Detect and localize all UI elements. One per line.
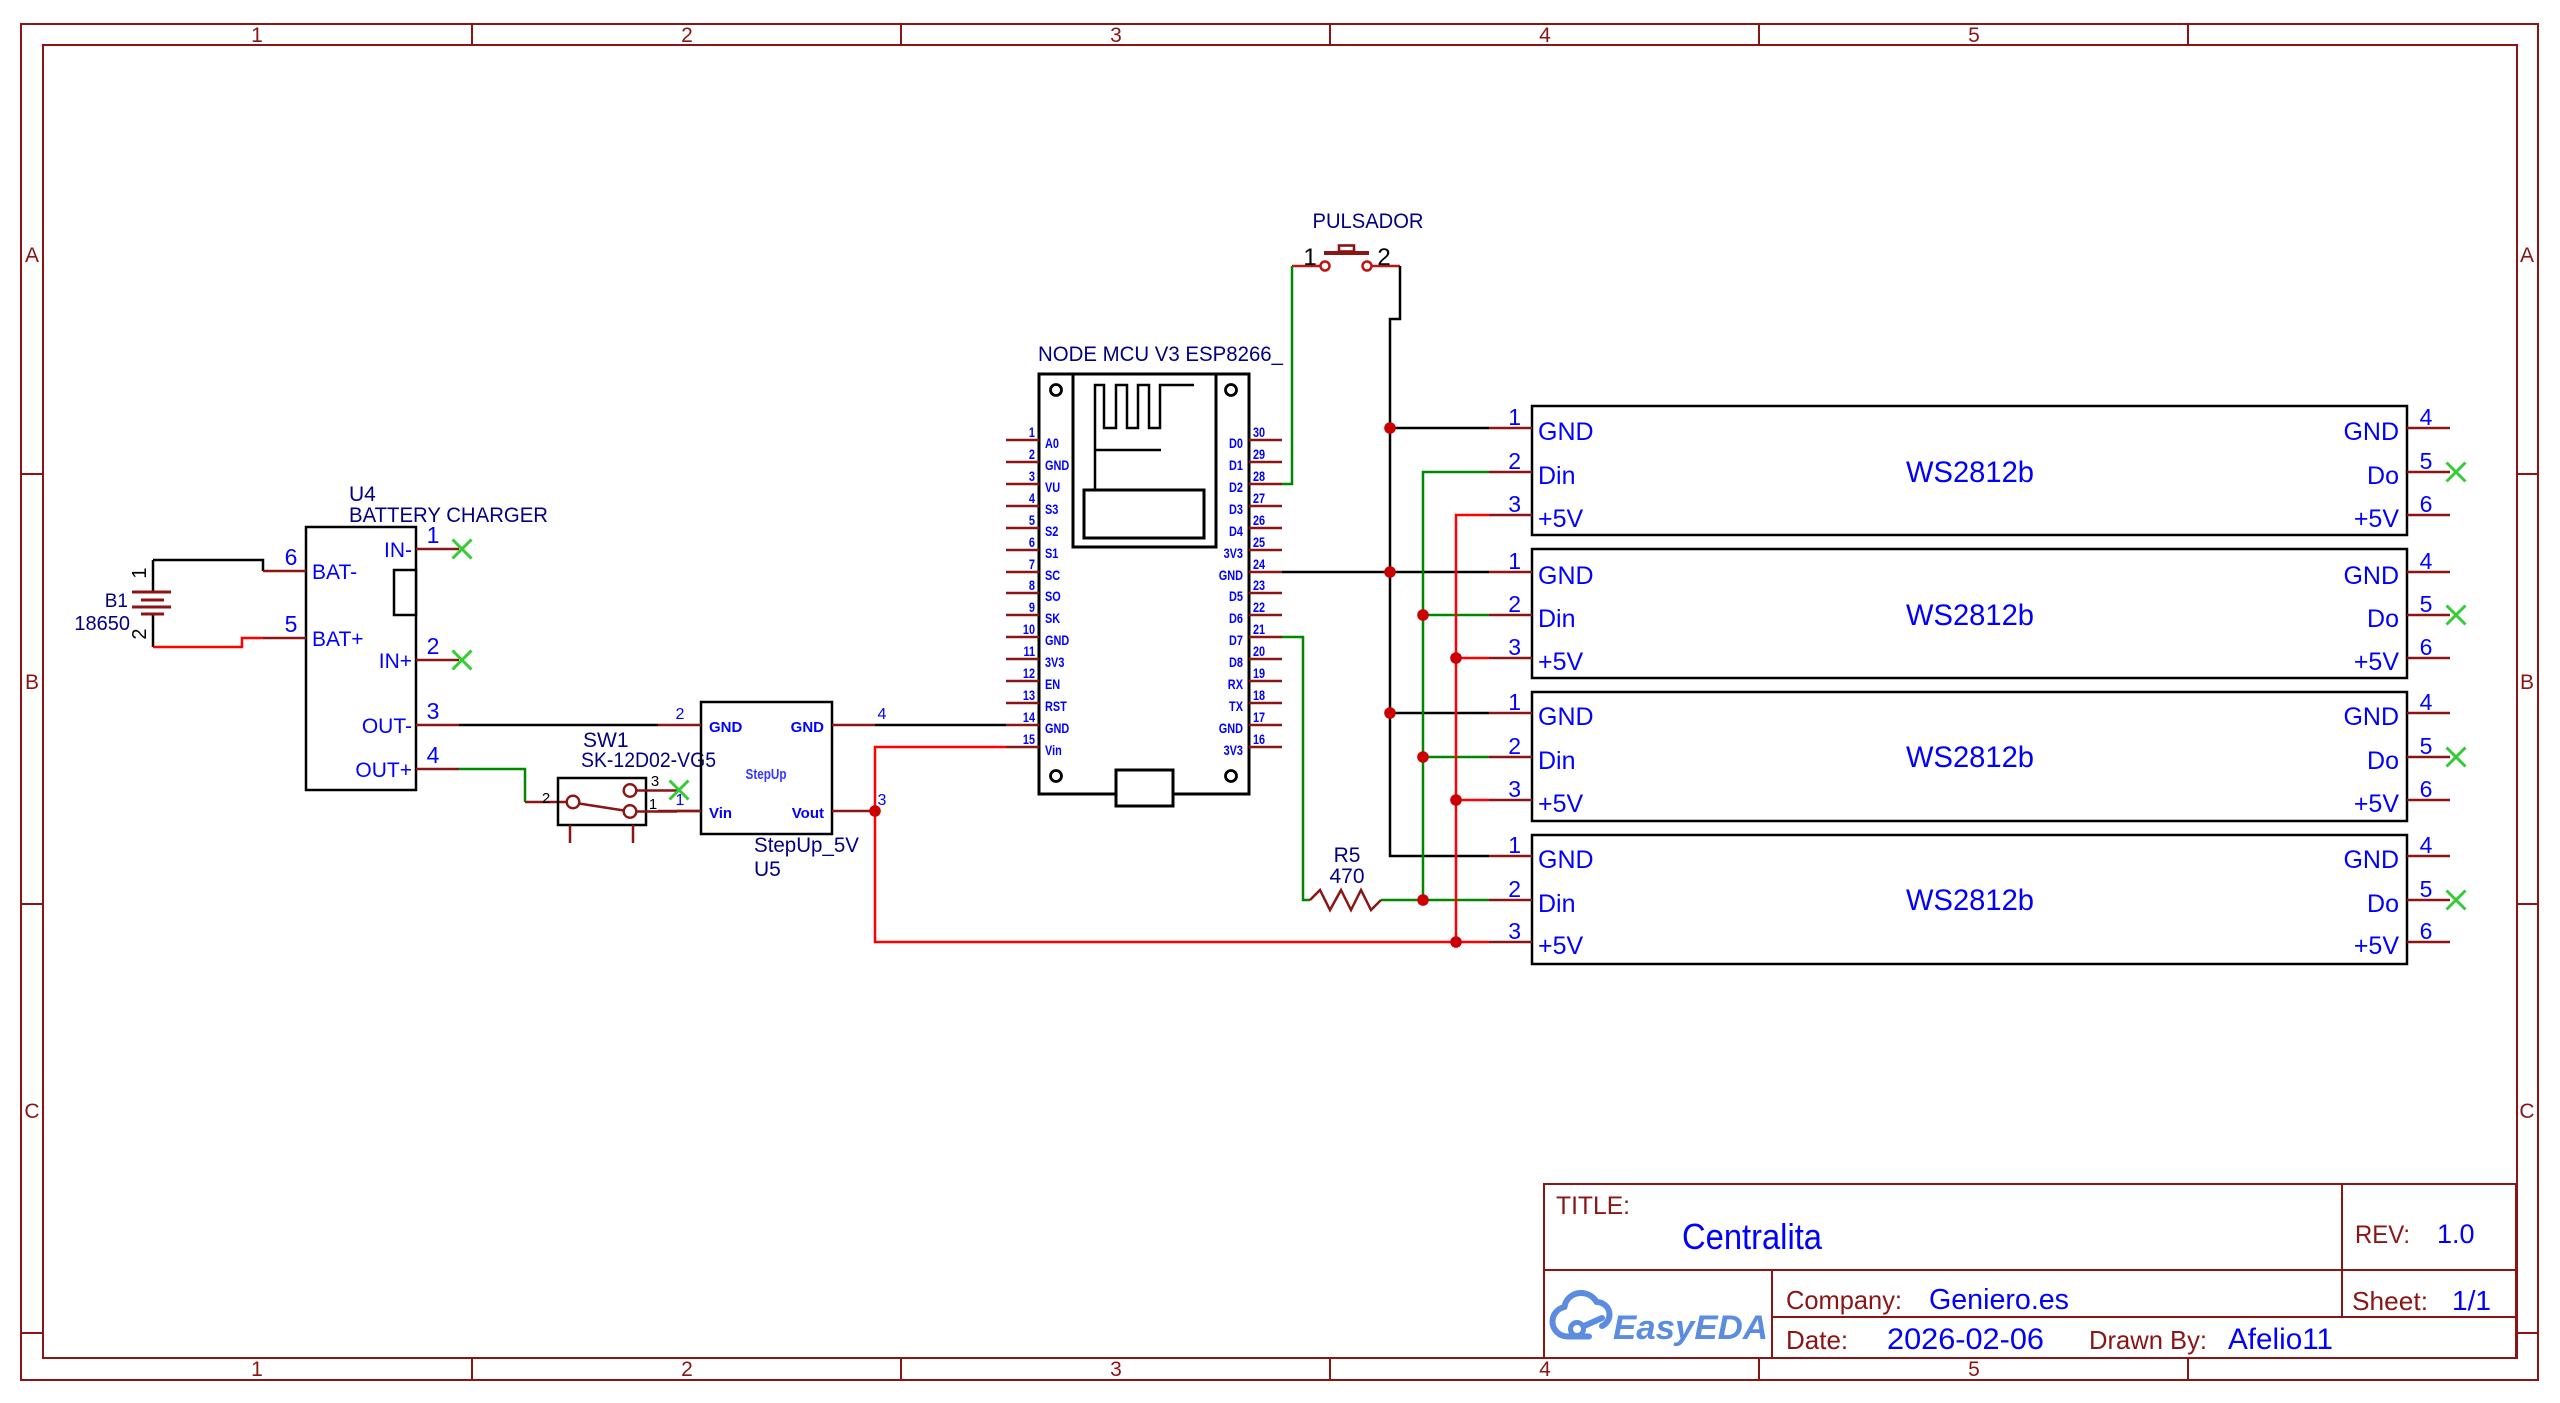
svg-text:GND: GND (1538, 418, 1594, 446)
svg-text:1/1: 1/1 (2452, 1285, 2491, 1316)
NodeMCU module inner box (1073, 374, 1216, 547)
svg-text:20: 20 (1253, 643, 1265, 659)
svg-text:3V3: 3V3 (1224, 545, 1244, 561)
svg-text:24: 24 (1253, 556, 1265, 572)
U4 pin 4 OUT+ (355, 742, 459, 782)
svg-text:3: 3 (651, 773, 659, 790)
svg-text:4: 4 (2420, 548, 2433, 574)
svg-text:GND: GND (1045, 632, 1069, 648)
svg-text:+5V: +5V (1538, 648, 1584, 676)
svg-text:U5: U5 (754, 858, 781, 881)
svg-text:11: 11 (1024, 643, 1036, 659)
no-connect flag X on strip 3 Do (2447, 748, 2466, 767)
SW1 lever (579, 804, 624, 811)
frame row labels right (2519, 244, 2534, 1123)
U5 pin 2 GND (left) (658, 706, 743, 736)
svg-text:2: 2 (676, 706, 685, 723)
svg-text:IN+: IN+ (379, 650, 412, 673)
svg-text:2: 2 (129, 628, 151, 639)
svg-text:U4: U4 (349, 483, 376, 506)
svg-text:PULSADOR: PULSADOR (1313, 210, 1424, 233)
svg-text:D3: D3 (1229, 501, 1243, 517)
title block outline (1544, 1184, 2516, 1358)
wire U4 OUT+ to SW1 pin2 (green) (459, 769, 525, 802)
svg-text:18: 18 (1253, 687, 1265, 703)
svg-text:2: 2 (1508, 733, 1521, 759)
WS2812b strip 1 pin 5 Do (2367, 448, 2450, 490)
svg-text:Din: Din (1538, 462, 1576, 490)
svg-text:30: 30 (1253, 424, 1265, 440)
svg-text:GND: GND (1538, 846, 1594, 874)
SW1 mounting stubs (570, 825, 633, 843)
svg-text:6: 6 (2420, 491, 2433, 517)
svg-text:1: 1 (676, 792, 685, 809)
U4 pin 1 IN- (384, 522, 459, 562)
svg-text:3: 3 (1508, 634, 1521, 660)
svg-text:Vout: Vout (792, 805, 824, 822)
svg-text:C: C (2519, 1100, 2534, 1123)
NodeMCU pin 27 D3 (1229, 490, 1282, 517)
junction Din strip2 (1417, 609, 1429, 621)
U4 connector notch (394, 570, 416, 615)
svg-text:Geniero.es: Geniero.es (1929, 1284, 2069, 1316)
svg-text:Do: Do (2367, 747, 2399, 775)
svg-text:7: 7 (1029, 556, 1035, 572)
WS2812b strip 3 pin 2 Din (1489, 733, 1576, 775)
svg-text:+5V: +5V (1538, 790, 1584, 818)
svg-text:Drawn By:: Drawn By: (2089, 1325, 2207, 1355)
svg-text:6: 6 (1029, 534, 1035, 550)
WS2812b strip 2 pin 6 +5V (2354, 634, 2450, 676)
svg-text:1: 1 (1508, 832, 1521, 858)
svg-text:Din: Din (1538, 890, 1576, 918)
wire battery pin2 to U4 BAT+ (red) (153, 638, 263, 647)
svg-text:2: 2 (1377, 244, 1390, 271)
svg-text:15: 15 (1023, 731, 1035, 747)
svg-text:6: 6 (2420, 918, 2433, 944)
NodeMCU pin 18 TX (1229, 687, 1282, 714)
WS2812b strip 2 pin 2 Din (1489, 591, 1576, 633)
svg-text:D6: D6 (1229, 610, 1243, 626)
svg-text:3: 3 (1508, 491, 1521, 517)
svg-text:VU: VU (1045, 479, 1060, 495)
WS2812b strip 4 pin 4 GND (2343, 832, 2450, 874)
NodeMCU pin 21 D7 (1229, 621, 1282, 648)
+5V trunk vertical (red) (1456, 515, 1489, 942)
junction Din strip3 (1417, 751, 1429, 763)
WS2812b strip 1 pin 1 GND (1489, 404, 1594, 446)
NodeMCU USB connector (1116, 770, 1173, 806)
svg-text:5: 5 (2420, 876, 2433, 902)
svg-text:C: C (24, 1100, 39, 1123)
PULSADOR pin 1 stub (1292, 244, 1320, 271)
battery B1 18650 symbol (132, 560, 171, 647)
svg-text:S3: S3 (1045, 501, 1059, 517)
svg-text:5: 5 (1029, 512, 1035, 528)
WS2812b strip 1 pin 4 GND (2343, 404, 2450, 446)
no-connect flag X on strip 2 Do (2447, 606, 2466, 625)
WS2812b strip 4 pin 1 GND (1489, 832, 1594, 874)
svg-text:1: 1 (251, 1358, 263, 1381)
svg-text:SK-12D02-VG5: SK-12D02-VG5 (581, 749, 716, 772)
svg-text:3: 3 (1508, 918, 1521, 944)
svg-text:S2: S2 (1045, 523, 1059, 539)
NodeMCU pin 8 SO (1006, 577, 1061, 604)
NodeMCU pin 25 3V3 (1224, 534, 1282, 561)
svg-text:Vin: Vin (1045, 742, 1062, 758)
U4 pin 5 BAT+ (263, 611, 364, 651)
+5V branch strip2 (1456, 657, 1489, 660)
GND branch to strip1 (1390, 427, 1489, 430)
svg-text:1.0: 1.0 (2437, 1219, 2475, 1249)
svg-text:BATTERY CHARGER: BATTERY CHARGER (349, 504, 548, 527)
svg-text:14: 14 (1023, 709, 1035, 725)
NodeMCU pin 7 SC (1006, 556, 1060, 583)
svg-text:GND: GND (2343, 418, 2399, 446)
svg-text:2: 2 (1508, 591, 1521, 617)
WS2812b strip 2 box (1532, 549, 2407, 678)
svg-text:WS2812b: WS2812b (1906, 741, 2034, 774)
PULSADOR pin 2 stub (1372, 244, 1400, 271)
NodeMCU pin 14 GND (1006, 709, 1069, 736)
svg-text:6: 6 (2420, 776, 2433, 802)
NodeMCU pin 2 GND (1006, 446, 1069, 473)
NodeMCU pin 20 D8 (1229, 643, 1282, 670)
wire battery pin1 to U4 BAT- (black) (153, 560, 263, 571)
svg-text:1: 1 (427, 522, 440, 548)
svg-text:D2: D2 (1229, 479, 1243, 495)
svg-text:GND: GND (709, 719, 743, 736)
wire U5 GND4 to NodeMCU pin14 GND (black) (875, 724, 1006, 727)
switch SW1 body (558, 778, 646, 825)
NodeMCU pin 11 3V3 (1006, 643, 1065, 670)
NodeMCU pin 10 GND (1006, 621, 1069, 648)
U5 pin 1 Vin (658, 792, 732, 822)
NodeMCU pin 5 S2 (1006, 512, 1059, 539)
svg-text:GND: GND (1219, 720, 1243, 736)
WS2812b strip 3 pin 1 GND (1489, 689, 1594, 731)
svg-text:12: 12 (1023, 665, 1035, 681)
svg-text:10: 10 (1023, 621, 1035, 637)
title block divider under TITLE row (1544, 1269, 2516, 1271)
+5V branch strip3 (1456, 799, 1489, 802)
NodeMCU pin 17 GND (1219, 709, 1282, 736)
NodeMCU pin 12 EN (1006, 665, 1060, 692)
WS2812b strip 1 pin 3 +5V (1489, 491, 1584, 533)
NodeMCU antenna feed line (1095, 449, 1161, 452)
svg-text:GND: GND (1219, 567, 1243, 583)
svg-text:4: 4 (1539, 1358, 1551, 1381)
svg-text:GND: GND (791, 719, 825, 736)
wire U5 Vout to NodeMCU Vin (red) (875, 747, 1006, 811)
svg-text:3: 3 (1029, 468, 1035, 484)
svg-text:13: 13 (1023, 687, 1035, 703)
junction +5V strip4 (1450, 936, 1462, 948)
svg-text:5: 5 (2420, 448, 2433, 474)
svg-text:Afelio11: Afelio11 (2228, 1323, 2333, 1356)
SW1 pin 1 stub (636, 796, 677, 813)
no-connect flag X on U4 pin 2 (453, 651, 472, 670)
svg-text:WS2812b: WS2812b (1906, 456, 2034, 489)
svg-text:1: 1 (251, 24, 263, 47)
WS2812b strip 2 pin 5 Do (2367, 591, 2450, 633)
WS2812b strip 4 pin 2 Din (1489, 876, 1576, 918)
Din branch strip3 (1423, 756, 1489, 759)
svg-text:Din: Din (1538, 605, 1576, 633)
svg-text:GND: GND (1045, 457, 1069, 473)
svg-text:GND: GND (2343, 703, 2399, 731)
WS2812b strip 2 pin 1 GND (1489, 548, 1594, 590)
wire NodeMCU D7 to R5 (green) (1282, 637, 1310, 900)
wire NodeMCU pin24 GND to trunk (black) (1282, 571, 1390, 574)
wire SW1 pin1 to U5 Vin (677, 810, 701, 813)
svg-text:Do: Do (2367, 890, 2399, 918)
NodeMCU pin 4 S3 (1006, 490, 1059, 517)
svg-text:1: 1 (649, 796, 657, 813)
svg-text:GND: GND (1045, 720, 1069, 736)
svg-text:5: 5 (285, 611, 298, 637)
WS2812b strip 3 pin 3 +5V (1489, 776, 1584, 818)
junction at U5 Vout (869, 805, 881, 817)
title block divider under Company/Sheet row (1772, 1316, 2516, 1318)
junction +5V strip3 (1450, 794, 1462, 806)
junction GND trunk strip2 (1384, 566, 1396, 578)
svg-text:GND: GND (1538, 703, 1594, 731)
svg-text:3: 3 (878, 792, 887, 809)
+5V branch strip4 (1456, 941, 1489, 944)
svg-text:+5V: +5V (2354, 790, 2400, 818)
NodeMCU mounting holes (1051, 385, 1237, 782)
NodeMCU pin 22 D6 (1229, 599, 1282, 626)
svg-text:23: 23 (1253, 577, 1265, 593)
svg-text:D4: D4 (1229, 523, 1243, 539)
svg-text:1: 1 (1508, 404, 1521, 430)
svg-text:2: 2 (1508, 876, 1521, 902)
junction +5V strip2 (1450, 652, 1462, 664)
svg-text:NODE MCU V3 ESP8266_: NODE MCU V3 ESP8266_ (1038, 343, 1283, 366)
svg-text:EasyEDA: EasyEDA (1613, 1309, 1768, 1347)
svg-text:4: 4 (2420, 404, 2433, 430)
U4 pin 6 BAT- (263, 544, 357, 584)
svg-text:A: A (25, 244, 39, 267)
svg-text:3: 3 (427, 698, 440, 724)
svg-text:OUT+: OUT+ (355, 759, 412, 782)
U4 pin 3 OUT- (362, 698, 459, 738)
U5 pin 3 Vout (792, 792, 887, 822)
wire PULSADOR pin2 down to GND trunk (black) (1390, 266, 1489, 856)
NodeMCU pin 28 D2 (1229, 468, 1282, 495)
svg-text:StepUp_5V: StepUp_5V (754, 834, 859, 857)
svg-text:470: 470 (1329, 865, 1364, 888)
svg-text:+5V: +5V (2354, 932, 2400, 960)
svg-text:2: 2 (1029, 446, 1035, 462)
svg-text:27: 27 (1253, 490, 1265, 506)
svg-text:1: 1 (129, 567, 151, 578)
svg-text:3: 3 (1110, 24, 1122, 47)
svg-text:TITLE:: TITLE: (1556, 1192, 1630, 1220)
wire Vout junction down to +5V rail (red) (875, 811, 1456, 942)
WS2812b strip 3 box (1532, 692, 2407, 821)
svg-text:2026-02-06: 2026-02-06 (1887, 1323, 2044, 1356)
svg-text:+5V: +5V (2354, 648, 2400, 676)
Din branch strip2 (1423, 614, 1489, 617)
Din trunk vertical (green) (1423, 472, 1489, 900)
svg-text:1: 1 (1508, 548, 1521, 574)
svg-text:IN-: IN- (384, 539, 412, 562)
WS2812b strip 4 pin 3 +5V (1489, 918, 1584, 960)
svg-text:REV:: REV: (2355, 1221, 2410, 1249)
svg-text:Centralita: Centralita (1682, 1216, 1823, 1257)
svg-text:19: 19 (1253, 665, 1265, 681)
NodeMCU pin 30 D0 (1229, 424, 1282, 451)
svg-text:5: 5 (1968, 24, 1980, 47)
GND branch to strip3 (1390, 712, 1489, 715)
wire U4 OUT- to U5 GND2 (black) (459, 724, 658, 727)
frame column labels top (251, 24, 1980, 47)
U5 pin 4 GND (right) (791, 706, 887, 736)
resistor R5 zigzag (1310, 890, 1381, 910)
svg-text:GND: GND (1538, 562, 1594, 590)
WS2812b strip 2 pin 3 +5V (1489, 634, 1584, 676)
EasyEDA logo cloud icon (1553, 1293, 1610, 1337)
svg-text:+5V: +5V (1538, 932, 1584, 960)
svg-text:D8: D8 (1229, 654, 1243, 670)
svg-text:R5: R5 (1334, 844, 1361, 867)
svg-text:D0: D0 (1229, 435, 1243, 451)
svg-text:BAT-: BAT- (312, 561, 357, 584)
junction GND trunk strip1 (1384, 422, 1396, 434)
svg-text:1: 1 (1303, 244, 1316, 271)
NodeMCU pin 1 A0 (1006, 424, 1059, 451)
svg-text:S1: S1 (1045, 545, 1059, 561)
WS2812b strip 1 pin 2 Din (1489, 448, 1576, 490)
no-connect flag X on SW1 pin 3 (670, 781, 689, 800)
WS2812b strip 3 pin 4 GND (2343, 689, 2450, 731)
wire R5 to Din trunk (green) (1381, 899, 1489, 902)
svg-text:RST: RST (1045, 698, 1067, 714)
svg-text:26: 26 (1253, 512, 1265, 528)
U5 StepUp_5V box (701, 702, 832, 834)
svg-text:BAT+: BAT+ (312, 628, 364, 651)
junction GND trunk strip3 (1384, 707, 1396, 719)
svg-text:4: 4 (427, 742, 440, 768)
svg-text:+5V: +5V (2354, 505, 2400, 533)
svg-text:Do: Do (2367, 462, 2399, 490)
svg-text:17: 17 (1253, 709, 1265, 725)
pushbutton PULSADOR symbol (1321, 246, 1372, 271)
svg-text:WS2812b: WS2812b (1906, 599, 2034, 632)
svg-text:OUT-: OUT- (362, 715, 412, 738)
svg-text:B: B (2520, 671, 2534, 694)
svg-text:Sheet:: Sheet: (2352, 1286, 2428, 1316)
svg-text:21: 21 (1253, 621, 1265, 637)
svg-text:A: A (2520, 244, 2534, 267)
WS2812b strip 4 pin 5 Do (2367, 876, 2450, 918)
NodeMCU shield can (1084, 490, 1204, 538)
svg-text:B1: B1 (105, 591, 128, 612)
svg-text:EN: EN (1045, 676, 1060, 692)
svg-text:Vin: Vin (709, 805, 732, 822)
NodeMCU pin 26 D4 (1229, 512, 1282, 539)
no-connect flag X on U4 pin 1 (453, 540, 472, 559)
NodeMCU antenna meander (1095, 385, 1194, 490)
svg-text:Date:: Date: (1786, 1325, 1848, 1355)
NodeMCU pin 9 SK (1006, 599, 1060, 626)
svg-text:SC: SC (1045, 567, 1060, 583)
svg-text:StepUp: StepUp (746, 766, 787, 783)
frame column labels bottom (251, 1358, 1980, 1381)
svg-text:1: 1 (1508, 689, 1521, 715)
NodeMCU pin 16 3V3 (1224, 731, 1282, 758)
NodeMCU pin 29 D1 (1229, 446, 1282, 473)
WS2812b strip 2 pin 4 GND (2343, 548, 2450, 590)
svg-text:SK: SK (1045, 610, 1060, 626)
svg-text:D1: D1 (1229, 457, 1243, 473)
svg-text:4: 4 (2420, 832, 2433, 858)
svg-text:Company:: Company: (1786, 1285, 1902, 1315)
svg-text:3: 3 (1508, 776, 1521, 802)
svg-text:D5: D5 (1229, 588, 1243, 604)
svg-text:29: 29 (1253, 446, 1265, 462)
NodeMCU pin 3 VU (1006, 468, 1060, 495)
SW1 pin 3 stub (636, 773, 677, 791)
svg-text:4: 4 (1539, 24, 1551, 47)
WS2812b strip 1 box (1532, 406, 2407, 535)
svg-text:9: 9 (1029, 599, 1035, 615)
svg-text:6: 6 (2420, 634, 2433, 660)
svg-text:16: 16 (1253, 731, 1265, 747)
no-connect flag X on strip 4 Do (2447, 891, 2466, 910)
svg-text:TX: TX (1229, 698, 1244, 714)
NodeMCU pin 6 S1 (1006, 534, 1059, 561)
NodeMCU pin 23 D5 (1229, 577, 1282, 604)
NodeMCU pin 13 RST (1006, 687, 1067, 714)
svg-text:2: 2 (1508, 448, 1521, 474)
svg-text:2: 2 (427, 633, 440, 659)
title block REV/Sheet cell divider (2341, 1184, 2343, 1317)
svg-text:2: 2 (681, 24, 693, 47)
wire NodeMCU D2 to PULSADOR pin1 (green) (1282, 266, 1292, 484)
NodeMCU pin 15 Vin (1006, 731, 1062, 758)
GND branch to strip2 (1390, 571, 1489, 574)
svg-text:3V3: 3V3 (1224, 742, 1244, 758)
WS2812b strip 4 pin 6 +5V (2354, 918, 2450, 960)
frame row labels left (24, 244, 39, 1123)
svg-text:1: 1 (1029, 424, 1035, 440)
svg-text:8: 8 (1029, 577, 1035, 593)
svg-text:5: 5 (1968, 1358, 1980, 1381)
svg-text:4: 4 (878, 706, 887, 723)
SW1 contact circles (567, 784, 637, 818)
svg-text:D7: D7 (1229, 632, 1243, 648)
no-connect flag X on strip 1 Do (2447, 463, 2466, 482)
svg-text:RX: RX (1228, 676, 1244, 692)
svg-text:3V3: 3V3 (1045, 654, 1065, 670)
svg-text:Din: Din (1538, 747, 1576, 775)
svg-text:SO: SO (1045, 588, 1061, 604)
NodeMCU main body (1039, 374, 1249, 794)
svg-text:2: 2 (542, 790, 550, 807)
WS2812b strip 1 pin 6 +5V (2354, 491, 2450, 533)
svg-text:2: 2 (681, 1358, 693, 1381)
NodeMCU pin 19 RX (1228, 665, 1282, 692)
svg-text:4: 4 (2420, 689, 2433, 715)
svg-text:22: 22 (1253, 599, 1265, 615)
svg-text:18650: 18650 (74, 613, 130, 635)
svg-text:25: 25 (1253, 534, 1265, 550)
SW1 pin 2 stub (525, 801, 566, 804)
WS2812b strip 4 box (1532, 835, 2407, 964)
